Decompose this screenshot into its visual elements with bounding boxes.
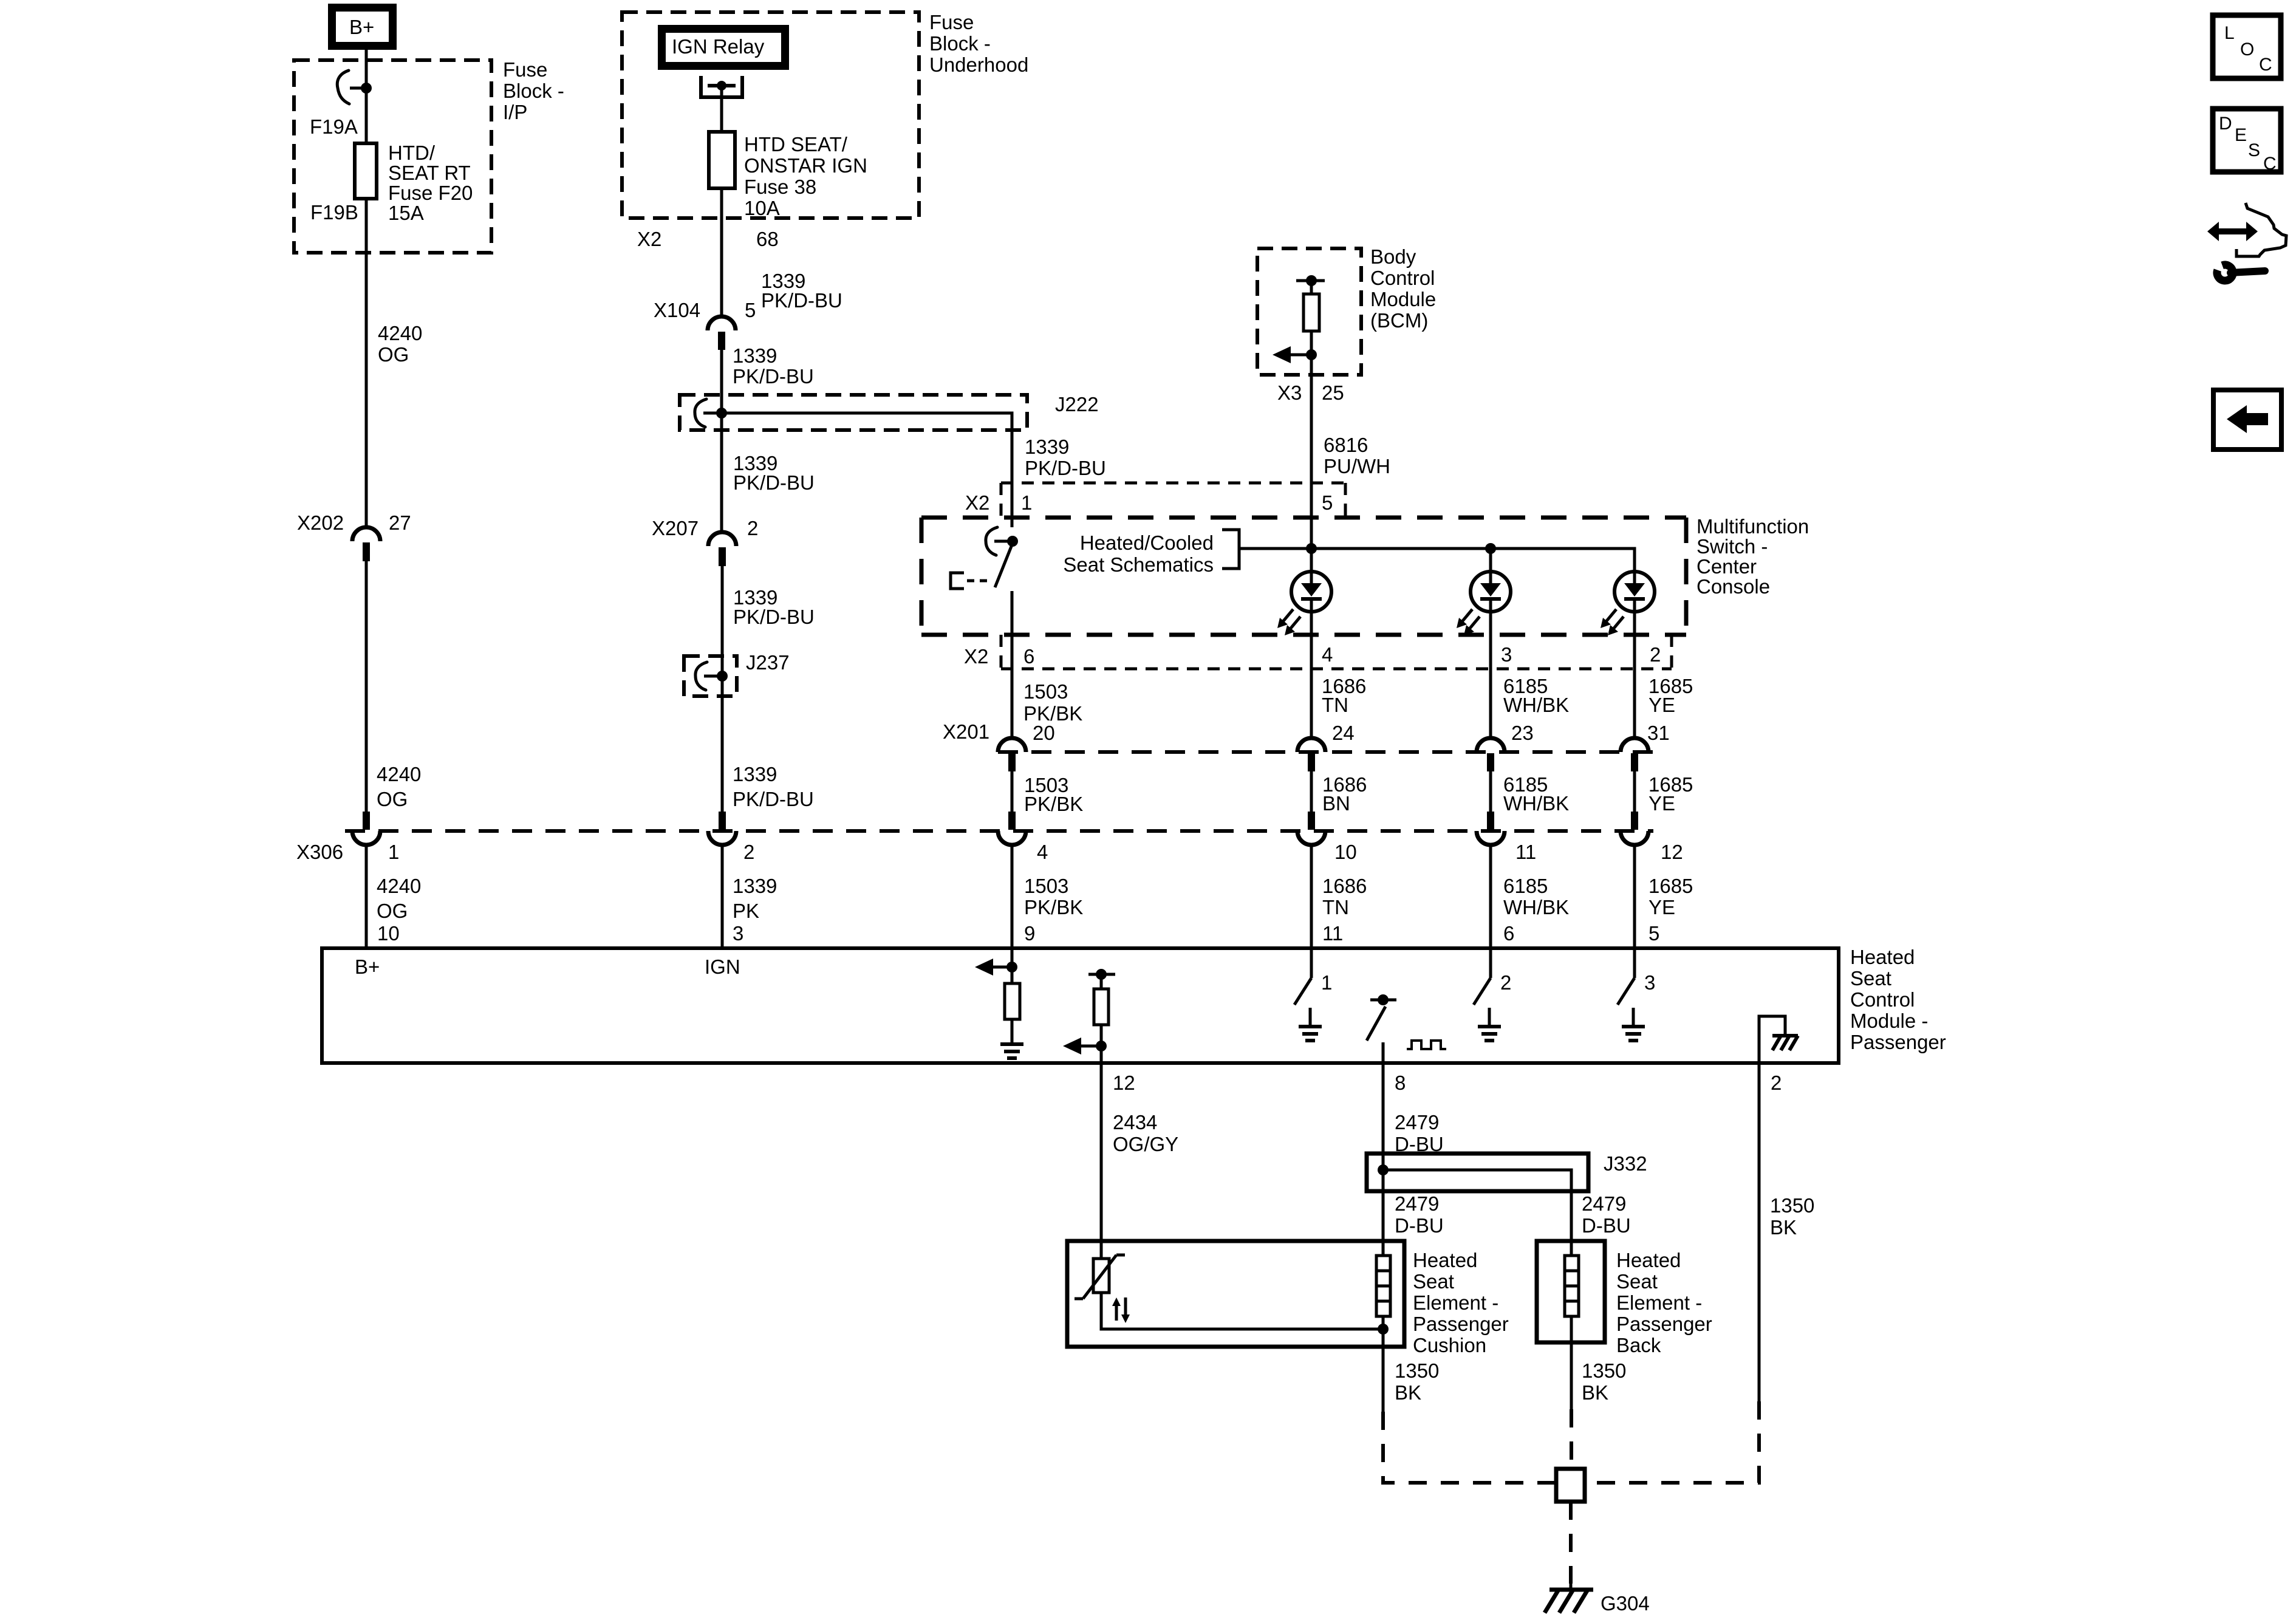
splice ground connector box xyxy=(1556,1469,1585,1502)
wire X201 to X306 col 1685 xyxy=(1633,771,1636,813)
heating element back xyxy=(1565,1241,1579,1342)
svg-text:5: 5 xyxy=(745,299,756,321)
connector X306 terminal col 1503 xyxy=(998,812,1026,845)
label wire 6816 PU/WH xyxy=(1324,434,1390,477)
fuse 38 HTD SEAT/ONSTAR IGN 10A xyxy=(709,132,735,188)
svg-text:1: 1 xyxy=(1021,491,1032,514)
svg-text:6185: 6185 xyxy=(1503,875,1548,897)
svg-text:X2: X2 xyxy=(965,491,989,514)
label wire 2434 OG/GY xyxy=(1113,1111,1178,1155)
svg-text:24: 24 xyxy=(1332,722,1355,744)
module internal PWM squarewave symbol xyxy=(1407,1041,1446,1049)
svg-text:OG/GY: OG/GY xyxy=(1113,1133,1178,1155)
svg-text:Seat Schematics: Seat Schematics xyxy=(1063,553,1214,576)
svg-text:27: 27 xyxy=(389,511,411,534)
svg-text:X207: X207 xyxy=(652,517,699,539)
svg-text:YE: YE xyxy=(1649,792,1675,815)
wire X202 to X306 xyxy=(365,561,368,813)
svg-text:1: 1 xyxy=(1321,971,1332,994)
svg-text:Console: Console xyxy=(1696,575,1770,598)
connector row X306 dashed line xyxy=(345,829,1653,833)
label wire 1339 PK/D-BU seg1 xyxy=(761,270,842,312)
module internal switch 1 xyxy=(1294,949,1311,1005)
svg-text:F19B: F19B xyxy=(310,201,358,224)
wire fuse F20 to X202 xyxy=(365,199,368,528)
svg-text:X3: X3 xyxy=(1277,381,1302,404)
label wire 1685 YE seg2 xyxy=(1649,773,1693,815)
svg-text:F19A: F19A xyxy=(310,115,358,138)
heated seat switch node xyxy=(986,527,1018,555)
relay IGN Relay box xyxy=(662,29,785,66)
wire J237 to X306 xyxy=(721,676,724,813)
connector X207 xyxy=(708,532,736,566)
module internal ground 1 xyxy=(1000,1019,1023,1058)
svg-text:J332: J332 xyxy=(1604,1152,1647,1175)
svg-text:X306: X306 xyxy=(296,841,343,863)
module internal ground switch 3 xyxy=(1622,1008,1645,1041)
icon DESC box xyxy=(2213,109,2281,174)
svg-text:68: 68 xyxy=(756,228,779,250)
wire relay to fuse 38 xyxy=(720,86,723,132)
svg-text:I/P: I/P xyxy=(503,101,527,123)
connector row X201 dashed line xyxy=(998,750,1653,754)
svg-text:OG: OG xyxy=(378,343,409,366)
svg-text:X201: X201 xyxy=(943,720,989,743)
BCM internal resistor xyxy=(1303,281,1319,355)
ground G304 xyxy=(1545,1590,1593,1613)
svg-text:Control: Control xyxy=(1850,988,1915,1011)
svg-text:PK: PK xyxy=(733,900,759,922)
wire pin 12 to cushion element xyxy=(1100,1063,1103,1241)
thermistor up-down arrows xyxy=(1112,1297,1130,1323)
wire cushion element down xyxy=(1382,1329,1385,1412)
svg-text:1: 1 xyxy=(388,841,399,863)
svg-text:2: 2 xyxy=(1500,971,1511,994)
splice pack J332 box xyxy=(1367,1154,1588,1191)
fuse block underhood dashed box xyxy=(622,12,919,218)
label wire 1339 PK/D-BU branch xyxy=(1025,436,1106,479)
heated seat switch blade xyxy=(995,545,1012,587)
svg-text:YE: YE xyxy=(1649,896,1675,918)
icon wrench xyxy=(2217,265,2265,281)
svg-text:X2: X2 xyxy=(964,645,988,668)
svg-text:1685: 1685 xyxy=(1649,875,1693,897)
label wire 1685 YE seg3 xyxy=(1649,875,1693,918)
svg-text:ONSTAR IGN: ONSTAR IGN xyxy=(744,154,867,177)
svg-text:1686: 1686 xyxy=(1322,875,1367,897)
svg-text:1339: 1339 xyxy=(1025,436,1069,458)
wire LED1 to X201 xyxy=(1310,611,1313,739)
label Multifunction Switch - Center Console xyxy=(1696,515,1809,598)
svg-text:6: 6 xyxy=(1503,922,1514,945)
module internal temp input terminal xyxy=(1367,994,1396,1063)
dashed ground wire right xyxy=(1585,1401,1759,1483)
label Heated Seat Element - Passenger Back xyxy=(1616,1249,1712,1356)
svg-text:23: 23 xyxy=(1511,722,1534,744)
label Fuse Block - Underhood xyxy=(929,11,1028,76)
wire X201 to X306 col 1686 xyxy=(1310,771,1313,813)
svg-text:Passenger: Passenger xyxy=(1616,1313,1712,1335)
wire X201 to X306 col 6185 xyxy=(1489,771,1492,813)
svg-text:1350: 1350 xyxy=(1770,1194,1814,1217)
connector X202 pin 27 xyxy=(352,527,380,561)
svg-text:2479: 2479 xyxy=(1582,1192,1626,1215)
label wire 1503 PK/BK seg1 xyxy=(1023,680,1082,725)
wire X306 to module col 1685 xyxy=(1633,845,1636,949)
svg-text:Underhood: Underhood xyxy=(929,53,1028,76)
svg-text:Module: Module xyxy=(1370,288,1436,310)
svg-text:Element -: Element - xyxy=(1616,1291,1702,1314)
module internal switch 2 xyxy=(1474,949,1491,1005)
svg-text:11: 11 xyxy=(1322,922,1343,945)
connector X104 xyxy=(708,316,736,350)
wire BCM to LED bus xyxy=(1310,355,1313,549)
svg-text:Block -: Block - xyxy=(929,32,991,55)
svg-text:B+: B+ xyxy=(355,955,380,978)
svg-text:25: 25 xyxy=(1322,381,1344,404)
svg-text:4240: 4240 xyxy=(378,322,422,344)
splice J222 dashed box xyxy=(680,395,1027,430)
svg-text:10: 10 xyxy=(1334,841,1357,863)
connector row X2 top of multifunction switch xyxy=(1001,483,1345,517)
svg-text:20: 20 xyxy=(1033,722,1055,744)
svg-text:Fuse F20: Fuse F20 xyxy=(388,182,473,204)
svg-text:31: 31 xyxy=(1647,722,1670,744)
svg-text:Heated/Cooled: Heated/Cooled xyxy=(1080,532,1214,554)
multifunction switch dashed box xyxy=(921,518,1686,635)
svg-text:1339: 1339 xyxy=(733,875,777,897)
svg-text:1503: 1503 xyxy=(1023,680,1068,703)
svg-text:Seat: Seat xyxy=(1413,1270,1454,1293)
svg-text:1339: 1339 xyxy=(733,763,777,785)
svg-text:2479: 2479 xyxy=(1395,1111,1439,1133)
svg-text:PK/D-BU: PK/D-BU xyxy=(733,606,815,628)
label wire 1350 BK back xyxy=(1582,1359,1626,1404)
svg-text:BK: BK xyxy=(1582,1381,1608,1404)
svg-text:BN: BN xyxy=(1322,792,1350,815)
LED indicator 1 xyxy=(1277,549,1331,635)
wire LED bus xyxy=(1239,549,1635,572)
svg-text:PK/D-BU: PK/D-BU xyxy=(733,365,814,388)
connector X201 terminal col 1685 xyxy=(1621,738,1649,771)
svg-text:Passenger: Passenger xyxy=(1413,1313,1509,1335)
svg-text:1339: 1339 xyxy=(733,344,777,367)
svg-text:BK: BK xyxy=(1770,1216,1797,1239)
body control module dashed box xyxy=(1257,248,1361,375)
svg-text:11: 11 xyxy=(1515,841,1536,863)
icon vehicle outline xyxy=(2236,203,2286,256)
node LED1 bus junction xyxy=(1306,543,1317,554)
svg-text:S: S xyxy=(2248,140,2260,160)
LED indicator 2 xyxy=(1457,549,1511,635)
label wire 1503 PK/BK seg2 xyxy=(1024,774,1083,815)
svg-text:Fuse: Fuse xyxy=(929,11,974,33)
heated seat element back box xyxy=(1537,1241,1605,1342)
connector X306 terminal col 1686 xyxy=(1297,812,1325,845)
label Heated Seat Control Module - Passenger xyxy=(1850,946,1946,1053)
svg-text:PK/D-BU: PK/D-BU xyxy=(733,471,815,494)
svg-text:WH/BK: WH/BK xyxy=(1503,792,1569,815)
module internal chassis ground pin 2 xyxy=(1759,1016,1798,1063)
svg-text:2479: 2479 xyxy=(1395,1192,1439,1215)
LED indicator 3 xyxy=(1601,572,1655,635)
svg-text:Switch -: Switch - xyxy=(1696,535,1768,558)
svg-text:PK/D-BU: PK/D-BU xyxy=(733,788,814,810)
svg-text:1350: 1350 xyxy=(1395,1359,1439,1382)
connector X306 terminal col 1685 xyxy=(1621,812,1649,845)
node F19A bus tap in fuse block xyxy=(337,70,372,104)
dashed ground wire back element xyxy=(1570,1409,1573,1469)
wire thermistor to cushion node xyxy=(1101,1293,1383,1329)
node cushion element junction xyxy=(1378,1324,1389,1335)
svg-text:WH/BK: WH/BK xyxy=(1503,694,1569,716)
module internal ground switch 1 xyxy=(1299,1008,1322,1041)
label wire 4240 OG upper xyxy=(378,322,422,366)
label wire 1339 PK/D-BU seg3 xyxy=(733,452,815,494)
svg-text:(BCM): (BCM) xyxy=(1370,309,1428,332)
svg-text:2: 2 xyxy=(1771,1072,1782,1094)
svg-text:2: 2 xyxy=(1650,643,1661,666)
svg-text:Element -: Element - xyxy=(1413,1291,1498,1314)
svg-text:12: 12 xyxy=(1661,841,1683,863)
label pointer Heated/Cooled Seat Schematics xyxy=(1063,532,1214,576)
fuse F20 HTD/SEAT RT 15A xyxy=(355,143,377,199)
label fuse F20 value xyxy=(388,142,473,224)
BCM internal terminal xyxy=(1296,275,1325,286)
svg-text:PK/D-BU: PK/D-BU xyxy=(761,289,842,312)
icon LOC box xyxy=(2213,15,2281,78)
svg-text:2: 2 xyxy=(743,841,754,863)
label wire 1503 PK/BK seg3 xyxy=(1024,875,1083,918)
svg-text:8: 8 xyxy=(1395,1072,1406,1094)
svg-text:HTD/: HTD/ xyxy=(388,142,436,164)
label Heated Seat Element - Passenger Cushion xyxy=(1413,1249,1509,1356)
wire X306 to module col B+ xyxy=(365,845,368,949)
module internal resistor 2 xyxy=(1094,989,1109,1025)
icon back arrow box xyxy=(2213,390,2281,450)
module internal resistor 1 xyxy=(1005,983,1020,1019)
label wire 1686 TN seg2 xyxy=(1322,875,1367,918)
svg-text:YE: YE xyxy=(1649,694,1675,716)
switch actuator dashed link xyxy=(967,579,991,583)
module internal arrow node pin 9 xyxy=(975,949,1017,983)
svg-text:Multifunction: Multifunction xyxy=(1696,515,1809,538)
wire back element down xyxy=(1570,1342,1573,1409)
wire J222 to X207 xyxy=(720,413,723,533)
wire X306 to module col 1686 xyxy=(1310,845,1313,949)
svg-text:WH/BK: WH/BK xyxy=(1503,896,1569,918)
svg-text:O: O xyxy=(2240,39,2254,60)
svg-text:Body: Body xyxy=(1370,245,1416,268)
connector X201 terminal col 6185 xyxy=(1477,738,1505,771)
svg-text:Heated: Heated xyxy=(1616,1249,1681,1271)
svg-text:10A: 10A xyxy=(744,197,780,219)
label wire 1350 BK right xyxy=(1770,1194,1814,1239)
svg-text:3: 3 xyxy=(733,922,743,945)
svg-text:Control: Control xyxy=(1370,267,1435,289)
heated seat element cushion box xyxy=(1067,1241,1404,1347)
svg-text:SEAT RT: SEAT RT xyxy=(388,162,471,184)
label wire 1350 BK cushion xyxy=(1395,1359,1439,1404)
wire X207 to J237 xyxy=(721,566,724,676)
node LED2 bus junction xyxy=(1485,543,1496,554)
wire LED2 to X201 xyxy=(1489,611,1492,739)
BCM internal arrow out xyxy=(1273,346,1317,363)
svg-text:X2: X2 xyxy=(637,228,661,250)
splice J237 dashed box xyxy=(684,656,737,696)
dashed ground wire cushion xyxy=(1383,1412,1556,1483)
svg-text:Cushion: Cushion xyxy=(1413,1334,1486,1356)
svg-text:Heated: Heated xyxy=(1850,946,1915,968)
svg-text:PK/BK: PK/BK xyxy=(1024,793,1083,815)
svg-text:TN: TN xyxy=(1322,896,1349,918)
svg-text:Fuse 38: Fuse 38 xyxy=(744,176,816,198)
module internal resistor 2 terminal xyxy=(1088,969,1115,989)
connector X201 terminal col 1686 xyxy=(1297,738,1325,771)
dashed wire splice to G304 xyxy=(1569,1502,1573,1584)
wire J332 to cushion heating element xyxy=(1382,1191,1385,1241)
svg-text:Center: Center xyxy=(1696,555,1757,578)
svg-text:1503: 1503 xyxy=(1024,875,1068,897)
label Body Control Module (BCM) xyxy=(1370,245,1436,332)
splice J237 node xyxy=(695,662,728,690)
svg-text:Fuse: Fuse xyxy=(503,58,547,81)
svg-text:4: 4 xyxy=(1037,841,1048,863)
svg-text:6816: 6816 xyxy=(1324,434,1368,456)
svg-text:J222: J222 xyxy=(1055,393,1099,415)
splice J332 node and bus xyxy=(1378,1154,1571,1191)
svg-text:Heated: Heated xyxy=(1413,1249,1477,1271)
wire J332 to back heating element xyxy=(1570,1191,1573,1241)
heated seat control module box xyxy=(322,948,1839,1063)
svg-text:OG: OG xyxy=(377,900,408,922)
svg-text:HTD SEAT/: HTD SEAT/ xyxy=(744,133,848,156)
icon double arrow xyxy=(2207,222,2258,241)
connector X306 terminal col 6185 xyxy=(1477,812,1505,845)
wire X306 to module col 6185 xyxy=(1489,845,1492,949)
svg-text:9: 9 xyxy=(1024,922,1035,945)
label fuse 38 value xyxy=(744,133,867,219)
svg-text:D: D xyxy=(2219,114,2232,134)
splice J222 node xyxy=(695,399,727,427)
svg-text:Module -: Module - xyxy=(1850,1010,1928,1032)
wire pin 8 to J332 xyxy=(1382,1063,1385,1154)
svg-text:OG: OG xyxy=(377,788,408,810)
svg-text:IGN: IGN xyxy=(705,955,740,978)
wire J222 branch to multifunction switch xyxy=(722,413,1012,527)
wire fuse 38 to X104 xyxy=(720,188,723,317)
svg-text:PK/D-BU: PK/D-BU xyxy=(1025,457,1106,479)
switch actuator bracket xyxy=(951,573,964,589)
wire F19A to fuse F20 xyxy=(365,88,368,143)
wire LED3 to X201 xyxy=(1633,611,1636,739)
power symbol B+ xyxy=(332,8,393,46)
wire X104 to splice J222 xyxy=(720,350,723,413)
wire X306 to module col 1503 xyxy=(1011,845,1014,949)
wire switch to X201 xyxy=(1011,591,1014,739)
connector row X2 bottom of multifunction switch xyxy=(1001,635,1672,669)
label wire 2479 D-BU seg3 xyxy=(1582,1192,1631,1237)
svg-text:2: 2 xyxy=(747,517,758,539)
heating element cushion xyxy=(1376,1241,1390,1329)
svg-text:15A: 15A xyxy=(388,202,424,224)
svg-text:4: 4 xyxy=(1322,643,1333,666)
label wire 1339 PK/D-BU seg4 xyxy=(733,586,815,628)
label wire 6185 WH/BK seg1 xyxy=(1503,675,1569,716)
relay contact terminal xyxy=(701,76,742,97)
svg-text:6: 6 xyxy=(1023,645,1034,668)
svg-text:5: 5 xyxy=(1649,922,1659,945)
label wire 6185 WH/BK seg2 xyxy=(1503,773,1569,815)
label wire 1686 BN xyxy=(1322,773,1367,815)
svg-text:D-BU: D-BU xyxy=(1395,1214,1444,1237)
label wire 1339 PK xyxy=(733,875,777,922)
svg-text:E: E xyxy=(2235,125,2247,145)
label wire 1339 PK/D-BU seg2 xyxy=(733,344,814,388)
svg-text:TN: TN xyxy=(1322,694,1348,716)
svg-text:Seat: Seat xyxy=(1850,967,1891,990)
label wire 4240 OG lower xyxy=(377,875,421,922)
module internal ground switch 2 xyxy=(1478,1008,1501,1041)
svg-text:D-BU: D-BU xyxy=(1582,1214,1631,1237)
svg-text:1350: 1350 xyxy=(1582,1359,1626,1382)
svg-text:3: 3 xyxy=(1501,643,1512,666)
svg-text:G304: G304 xyxy=(1601,1592,1650,1615)
bracket to LED bus xyxy=(1222,530,1239,569)
module internal arrow node pin 12 xyxy=(1063,1025,1107,1063)
wire X201 to X306 col 1503 xyxy=(1011,771,1014,813)
label wire 1339 PK/D-BU seg5 xyxy=(733,763,814,810)
svg-text:C: C xyxy=(2259,55,2272,75)
fuse block I/P dashed box xyxy=(294,60,491,253)
connector X306 terminal col 1339 xyxy=(708,812,736,845)
svg-text:BK: BK xyxy=(1395,1381,1421,1404)
label wire 2479 D-BU seg2 xyxy=(1395,1192,1444,1237)
svg-text:12: 12 xyxy=(1113,1072,1135,1094)
label wire 1685 YE seg1 xyxy=(1649,675,1693,716)
svg-text:PK/BK: PK/BK xyxy=(1024,896,1083,918)
svg-text:Seat: Seat xyxy=(1616,1270,1658,1293)
label Fuse Block - I/P xyxy=(503,58,564,123)
svg-text:3: 3 xyxy=(1644,971,1655,994)
svg-text:X104: X104 xyxy=(654,299,700,321)
svg-text:5: 5 xyxy=(1322,491,1333,514)
label wire 4240 OG mid xyxy=(377,763,421,810)
svg-text:IGN Relay: IGN Relay xyxy=(672,35,765,58)
svg-text:X202: X202 xyxy=(297,511,344,534)
svg-text:2434: 2434 xyxy=(1113,1111,1157,1133)
svg-text:10: 10 xyxy=(377,922,400,945)
svg-text:Back: Back xyxy=(1616,1334,1661,1356)
label wire 2479 D-BU seg1 xyxy=(1395,1111,1444,1155)
svg-text:C: C xyxy=(2263,154,2277,174)
label wire 1686 TN seg1 xyxy=(1322,675,1366,716)
wire B+ to node F19A xyxy=(365,50,368,88)
svg-text:B+: B+ xyxy=(349,16,374,38)
svg-text:Block -: Block - xyxy=(503,80,564,102)
label wire 6185 WH/BK seg3 xyxy=(1503,875,1569,918)
module internal switch 3 xyxy=(1618,949,1635,1005)
svg-text:PU/WH: PU/WH xyxy=(1324,455,1390,477)
svg-text:4240: 4240 xyxy=(377,763,421,785)
wire pin 2 down xyxy=(1758,1063,1761,1401)
svg-text:Passenger: Passenger xyxy=(1850,1031,1946,1053)
thermistor cushion temp sensor xyxy=(1075,1241,1125,1299)
svg-text:J237: J237 xyxy=(746,651,790,674)
connector X306 terminal col 4240 xyxy=(352,812,380,845)
svg-text:4240: 4240 xyxy=(377,875,421,897)
connector X201 terminal col 1503 xyxy=(998,738,1026,771)
